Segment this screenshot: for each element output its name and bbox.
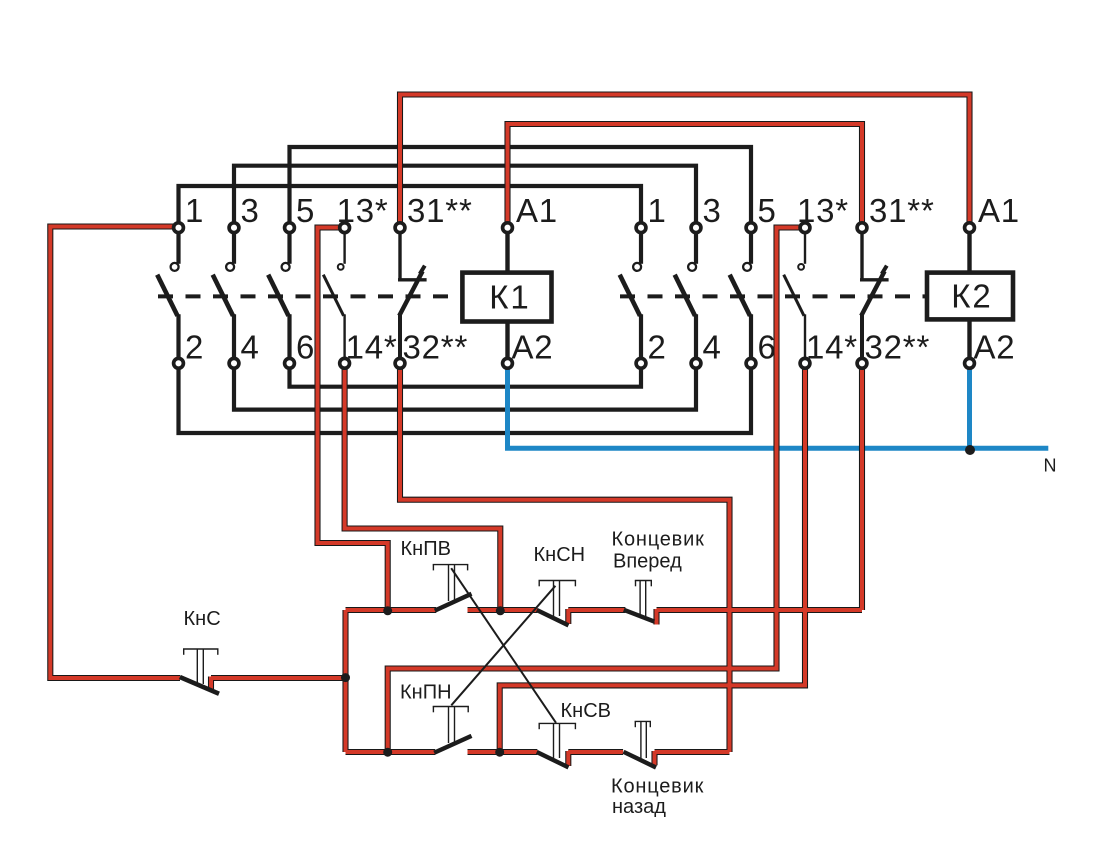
- wire K1 coil-A2 lead: [505, 320, 509, 364]
- wire bus 1K1-1K2: [179, 186, 642, 228]
- svg-text:6: 6: [296, 329, 315, 366]
- wire lower rail segment 2 (red core): [468, 750, 538, 754]
- junction stop button output: [341, 673, 350, 682]
- wire A2-K1 to neutral bus N (blue): [508, 363, 1049, 448]
- terminal 13 K1: [340, 223, 350, 233]
- terminal 3 K2: [691, 223, 701, 233]
- wire bus A1K1-31K2 (red core): [508, 124, 863, 228]
- svg-text:5: 5: [296, 192, 315, 229]
- button KnPN actuator: [433, 707, 469, 744]
- limit switch reverse actuator: [635, 721, 651, 758]
- svg-text:А2: А2: [974, 329, 1016, 366]
- svg-text:А2: А2: [512, 329, 554, 366]
- wire lower rail segment 1 (outline): [346, 749, 436, 755]
- svg-text:14*: 14*: [346, 329, 398, 366]
- button KnSN actuator: [539, 581, 577, 617]
- wire bus 2K1-6K2: [179, 363, 752, 433]
- wire A1-K2 coil lead: [967, 228, 971, 275]
- contact K2 aux NO 13-14: [784, 234, 805, 364]
- limit switch forward actuator: [635, 581, 652, 617]
- wire upper rail segment 4 to 32K2 (red core): [657, 608, 863, 612]
- contact K1 aux NO 13-14: [323, 234, 344, 364]
- wire bus A1K1-31K2 (outline): [508, 124, 863, 228]
- wire K2 coil-A2 lead: [967, 317, 971, 363]
- terminal 31 K1: [395, 223, 405, 233]
- contact K2 pole 5-6: [730, 234, 751, 364]
- button KnSV actuator: [539, 723, 577, 758]
- svg-text:А1: А1: [978, 192, 1020, 229]
- svg-text:К1: К1: [489, 279, 531, 316]
- svg-text:3: 3: [241, 192, 260, 229]
- wire stub stop button (red core): [209, 677, 213, 692]
- svg-text:КнПН: КнПН: [400, 682, 452, 704]
- wire stop button output to junction (red core): [211, 676, 346, 680]
- button KnS actuator: [183, 649, 219, 684]
- wire lower rail segment 3 (red core): [568, 750, 623, 754]
- svg-text:1: 1: [648, 192, 667, 229]
- wire lower rail segment 3 (outline): [568, 749, 623, 755]
- wire 14K2 parallel branch (outline): [500, 363, 805, 752]
- wire stub limit rev (red core): [653, 751, 657, 765]
- terminal 14 K1: [340, 358, 350, 368]
- terminal 1 K1: [174, 223, 184, 233]
- svg-text:КнПВ: КнПВ: [401, 538, 451, 560]
- svg-text:32**: 32**: [865, 329, 931, 366]
- wire A2-K2 to neutral (blue): [967, 363, 972, 448]
- dashed mechanical link K2: [620, 294, 927, 298]
- terminal A2 K1: [503, 358, 513, 368]
- wire bus 31K1-A1K2 (red core): [400, 95, 970, 228]
- wire stub limit fwd (outline): [653, 609, 659, 625]
- svg-text:4: 4: [703, 329, 722, 366]
- svg-text:2: 2: [185, 329, 204, 366]
- contact K2 aux NC 31-32: [860, 234, 889, 364]
- terminal A1 K1: [503, 223, 513, 233]
- terminal 14 K2: [800, 358, 810, 368]
- svg-text:К2: К2: [951, 278, 993, 315]
- contact K1 aux NC 31-32: [398, 234, 427, 364]
- svg-text:назад: назад: [612, 796, 666, 818]
- terminal 32 K2: [857, 358, 867, 368]
- wire A1-K1 coil lead: [505, 228, 509, 275]
- svg-text:13*: 13*: [337, 192, 389, 229]
- terminal 4 K2: [691, 358, 701, 368]
- svg-text:6: 6: [758, 329, 777, 366]
- wire stub limit fwd (red core): [655, 609, 659, 625]
- wire junction riser between rails (outline): [342, 610, 348, 752]
- svg-text:КнСВ: КнСВ: [561, 700, 611, 722]
- wire stub KnSN (red core): [566, 609, 570, 624]
- wire 13K2 parallel branch (outline): [388, 228, 800, 753]
- svg-text:Концевик: Концевик: [612, 529, 705, 551]
- junction upper rail / 13K1: [383, 606, 392, 615]
- wire 14K1 parallel branch (red core): [345, 363, 501, 610]
- wire upper rail segment 1 (outline): [346, 607, 437, 613]
- contact K1 pole 5-6: [268, 234, 289, 364]
- wire lower rail segment 2 (outline): [468, 749, 538, 755]
- terminal 6 K2: [746, 358, 756, 368]
- svg-text:31**: 31**: [869, 192, 935, 229]
- svg-text:1: 1: [185, 192, 204, 229]
- wire bus 3K1-3K2: [234, 166, 696, 228]
- wire stub KnSV (red core): [566, 751, 570, 766]
- contact K2 pole 3-4: [675, 234, 696, 364]
- wire 14K1 parallel branch (outline): [345, 363, 501, 610]
- wire upper rail segment 3 (red core): [568, 608, 625, 612]
- wire phase feed from 1K1 to stop button (outline): [50, 227, 180, 679]
- wire bus 31K1-A1K2 (outline): [400, 95, 970, 228]
- coil K1: [462, 273, 551, 322]
- terminal 5 K1: [285, 223, 295, 233]
- terminal 3 K1: [229, 223, 239, 233]
- contact K2 pole 1-2: [620, 234, 641, 364]
- terminal 2 K2: [636, 358, 646, 368]
- wire bus 6K1-2K2: [290, 363, 642, 386]
- dashed mechanical link K1: [158, 294, 462, 298]
- wire 13K1 parallel branch (outline): [318, 228, 388, 611]
- svg-text:5: 5: [758, 192, 777, 229]
- svg-text:14*: 14*: [806, 329, 858, 366]
- button KnPV actuator: [433, 565, 469, 601]
- wire phase feed from 1K1 to stop button (red core): [50, 227, 180, 679]
- junction lower rail / 13K2: [383, 748, 392, 757]
- junction lower rail / 14K2: [495, 748, 504, 757]
- svg-text:4: 4: [241, 329, 260, 366]
- terminal 32 K1: [395, 358, 405, 368]
- svg-text:3: 3: [703, 192, 722, 229]
- limit switch reverse blade: [624, 752, 657, 768]
- terminal 5 K2: [746, 223, 756, 233]
- wire stub stop button (outline): [208, 677, 214, 692]
- mechanical interlock KnPV-KnSV: [451, 568, 556, 723]
- wire upper rail segment 1 (red core): [346, 608, 437, 612]
- svg-text:32**: 32**: [403, 329, 469, 366]
- svg-text:31**: 31**: [407, 192, 473, 229]
- contact K1 pole 1-2: [157, 234, 178, 364]
- wire 32K2 to forward branch end (red core): [860, 363, 864, 610]
- wire 32K1 to reverse branch end (red core): [400, 363, 730, 752]
- terminal 13 K2: [800, 223, 810, 233]
- wire 13K1 parallel branch (red core): [318, 228, 388, 611]
- wire 14K2 parallel branch (red core): [500, 363, 805, 752]
- wire lower rail segment 4 (red core): [655, 750, 730, 754]
- limit switch forward blade: [624, 610, 655, 622]
- svg-text:13*: 13*: [797, 192, 849, 229]
- mechanical interlock KnSN-KnPN: [451, 586, 555, 706]
- wire 32K2 to forward branch end (outline): [859, 363, 865, 610]
- wire upper rail segment 2 (outline): [468, 607, 538, 613]
- wire lower rail segment 4 (outline): [655, 749, 730, 755]
- terminal 4 K1: [229, 358, 239, 368]
- wire junction riser between rails (red core): [344, 610, 348, 752]
- svg-text:Вперед: Вперед: [613, 551, 682, 573]
- terminal 1 K2: [636, 223, 646, 233]
- button KnPN blade: [434, 736, 471, 753]
- button KnSN blade: [537, 610, 569, 625]
- wire upper rail segment 2 (red core): [468, 608, 538, 612]
- wire 32K1 to reverse branch end (outline): [400, 363, 730, 752]
- terminal 31 K2: [857, 223, 867, 233]
- wire bus 5K1-5K2: [290, 147, 752, 228]
- svg-text:2: 2: [648, 329, 667, 366]
- button KnPV blade: [435, 594, 472, 611]
- wire 13K2 parallel branch (red core): [388, 228, 800, 753]
- terminal 2 K1: [174, 358, 184, 368]
- wire upper rail segment 4 to 32K2 (outline): [657, 607, 863, 613]
- svg-text:А1: А1: [516, 192, 558, 229]
- contact K1 pole 3-4: [213, 234, 234, 364]
- wire bus 4K1-4K2: [234, 363, 696, 409]
- svg-text:КнС: КнС: [184, 608, 221, 630]
- svg-text:Концевик: Концевик: [611, 776, 704, 798]
- wire stub KnSV (outline): [565, 751, 571, 766]
- wire stop button output to junction (outline): [211, 675, 346, 681]
- svg-text:КнСН: КнСН: [534, 544, 586, 566]
- terminal A1 K2: [965, 223, 975, 233]
- button KnS blade: [180, 677, 219, 694]
- wire stub KnSN (outline): [565, 609, 571, 624]
- wire lower rail segment 1 (red core): [346, 750, 436, 754]
- coil K2: [927, 273, 1013, 320]
- button KnSV blade: [537, 752, 569, 767]
- terminal 6 K1: [285, 358, 295, 368]
- wire upper rail segment 3 (outline): [568, 607, 625, 613]
- junction neutral / A2K2: [965, 445, 975, 455]
- wire stub limit rev (outline): [651, 751, 657, 765]
- junction upper rail / 14K1: [496, 606, 505, 615]
- svg-text:N: N: [1044, 456, 1057, 476]
- terminal A2 K2: [965, 358, 975, 368]
